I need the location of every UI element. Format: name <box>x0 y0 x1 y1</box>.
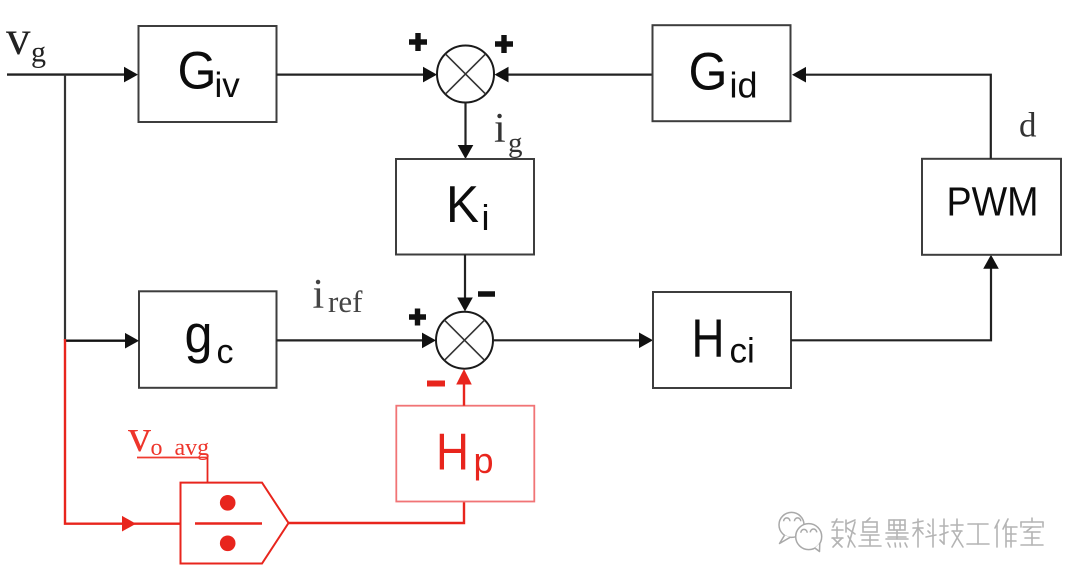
svg-text:g: g <box>31 36 46 69</box>
svg-text:i: i <box>313 272 325 318</box>
wire gc to S2 <box>277 339 430 341</box>
node vo_avg label red <box>128 410 209 461</box>
summer S1 circle <box>437 46 494 103</box>
arrowhead into Hci left <box>639 333 653 349</box>
svg-text:g: g <box>185 305 213 365</box>
arrowhead into S2 left <box>422 333 436 349</box>
svg-text:d: d <box>1019 106 1037 145</box>
summer S2 circle <box>436 312 493 369</box>
divider block (red pentagon) <box>181 483 289 564</box>
svg-text:ci: ci <box>730 332 755 371</box>
S2 minus top right label <box>478 291 495 296</box>
block gc <box>139 291 277 388</box>
arrowhead into S1 left <box>423 67 437 83</box>
arrowhead into PWM bottom <box>983 255 999 269</box>
svg-text:id: id <box>730 64 758 105</box>
wire branch into gc <box>65 340 132 342</box>
wire Giv to summer S1 <box>277 73 431 75</box>
wire Ki down to summer S2 <box>464 255 466 305</box>
svg-text:v: v <box>128 410 151 461</box>
arrowhead into Ki top <box>458 145 474 159</box>
svg-text:ref: ref <box>328 284 363 319</box>
arrowhead into Gid right <box>792 67 806 83</box>
svg-text:p: p <box>474 440 494 481</box>
wire vg branch vertical red lower <box>64 339 66 523</box>
arrowhead into S2 top <box>457 298 473 312</box>
wire vg branch vertical black <box>64 75 66 341</box>
wire PWM top to Gid <box>799 75 991 159</box>
svg-text:i: i <box>482 197 490 238</box>
svg-text:H: H <box>436 424 469 482</box>
arrowhead red into S2 bottom <box>456 369 472 385</box>
svg-text:v: v <box>6 10 31 65</box>
block Hp (red) <box>396 406 534 502</box>
svg-text:PWM: PWM <box>947 179 1039 225</box>
arrowhead into gc left <box>125 333 139 349</box>
svg-text:G: G <box>689 42 728 101</box>
svg-text:K: K <box>446 176 479 234</box>
svg-text:c: c <box>217 333 234 371</box>
divider dot top <box>220 495 236 511</box>
divider division bar <box>195 522 262 524</box>
wire S1 down to Ki <box>464 103 466 153</box>
block Gid <box>653 25 791 121</box>
S1 plus right label <box>495 35 513 53</box>
svg-text:iv: iv <box>215 66 241 105</box>
svg-text:i: i <box>494 106 506 152</box>
block Giv <box>139 26 277 122</box>
wire Hp up to S2 <box>463 376 465 406</box>
S2 red minus bottom left label <box>427 381 445 387</box>
wire S2 to Hci <box>493 339 646 341</box>
block PWM <box>922 159 1061 255</box>
node ig label <box>494 106 523 159</box>
S1 plus left label <box>409 33 427 51</box>
wire divider output to Hp <box>289 502 465 524</box>
divider dot bottom <box>220 536 236 552</box>
arrowhead into Giv <box>124 67 138 83</box>
block Hci <box>653 292 791 388</box>
wire red to divider <box>64 523 181 525</box>
svg-text:g: g <box>508 127 523 159</box>
svg-text:H: H <box>692 309 725 369</box>
wire vg input to Giv <box>7 73 131 75</box>
arrowhead into S1 right <box>495 67 509 83</box>
watermark text strokes <box>832 518 1043 547</box>
svg-text:G: G <box>178 42 217 101</box>
watermark logo (chat bubbles) <box>779 512 822 551</box>
wire right input into S1 <box>501 73 652 75</box>
wire vo_avg drop into divider top <box>207 458 209 483</box>
block Ki <box>396 159 534 255</box>
wire Hci to PWM (right, up) <box>791 262 991 340</box>
node vg label <box>6 10 46 69</box>
node iref label <box>313 272 364 319</box>
arrowhead red into divider <box>122 516 136 532</box>
S2 plus left label <box>409 309 426 326</box>
